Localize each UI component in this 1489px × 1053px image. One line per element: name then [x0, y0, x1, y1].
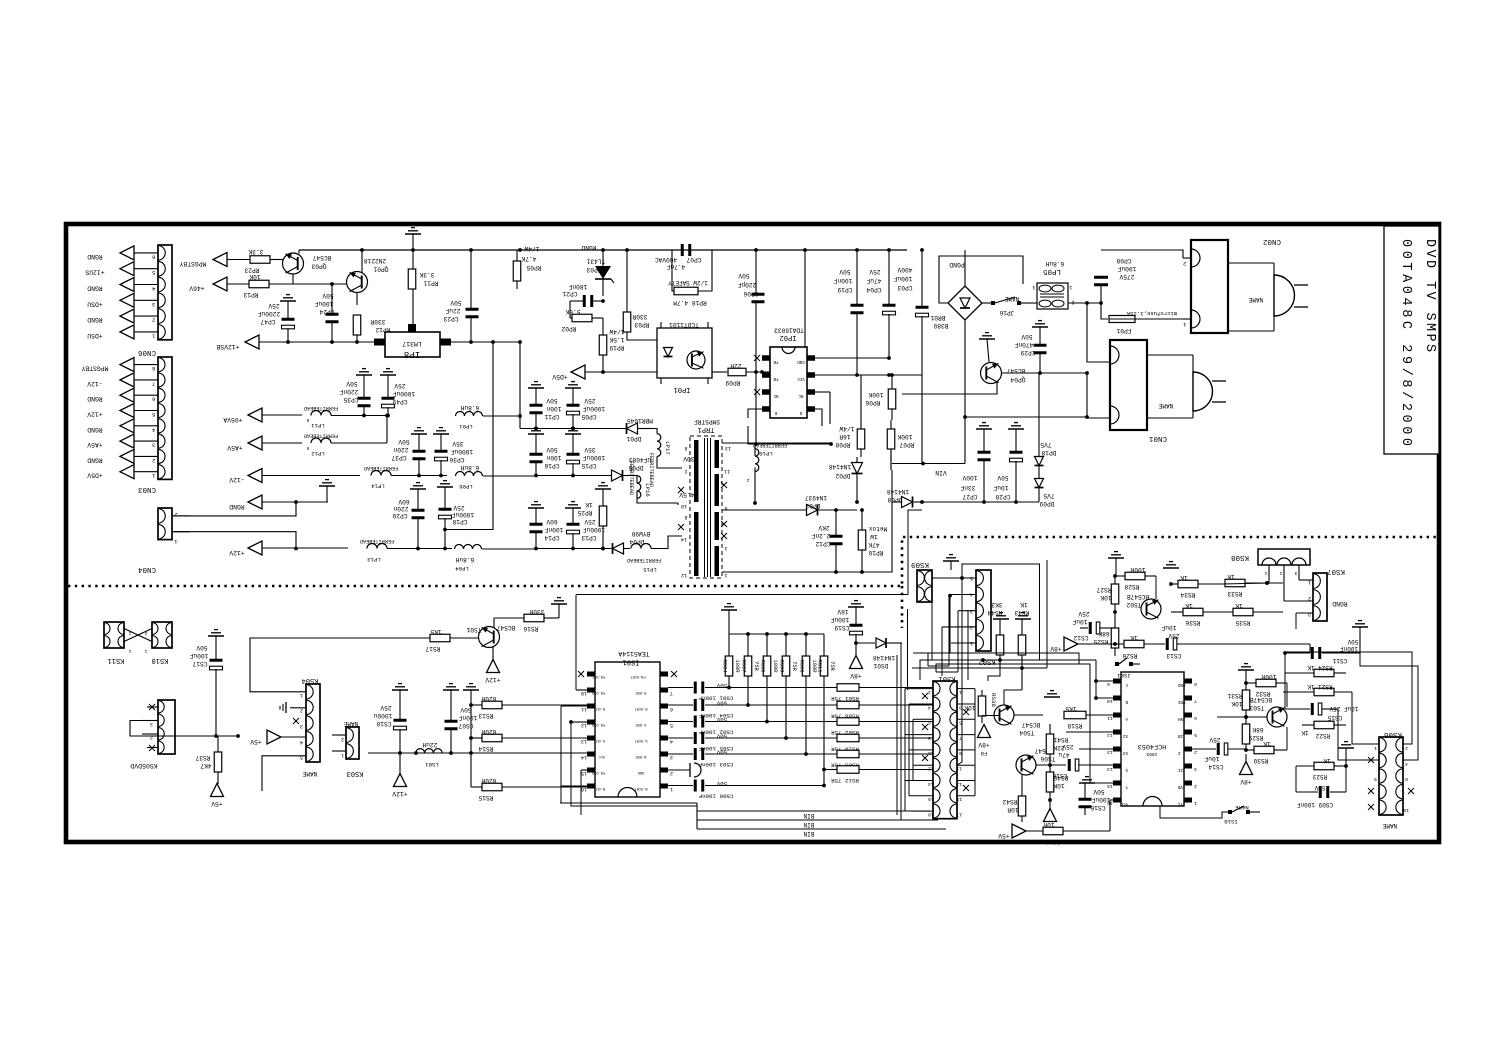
svg-text:RS29: RS29: [1248, 734, 1263, 741]
svg-text:180R: 180R: [734, 660, 740, 674]
svg-text:RS12 75R: RS12 75R: [831, 777, 859, 784]
svg-text:GND: GND: [797, 359, 805, 363]
isolation boundary dotted line: [68, 537, 1437, 586]
svg-text:25V: 25V: [268, 302, 279, 309]
svg-text:RS36: RS36: [1185, 619, 1200, 626]
svg-text:+DSU: +DSU: [87, 300, 103, 307]
svg-text:FERRITEBEAD: FERRITEBEAD: [304, 433, 338, 439]
svg-text:+8V: +8V: [850, 672, 862, 679]
svg-text:KS07: KS07: [1327, 567, 1345, 575]
wire KS05 to KS04 pin: [237, 736, 239, 737]
KS01 left wires: [905, 688, 933, 690]
net arrow +8V mid: [1050, 637, 1124, 652]
svg-text:100uF: 100uF: [314, 300, 333, 307]
ferrite bead LP16 vertical: [628, 461, 678, 503]
svg-text:1N4148: 1N4148: [887, 488, 910, 495]
svg-text:1N4937: 1N4937: [805, 494, 828, 501]
svg-text:RS07: RS07: [741, 660, 747, 673]
wire long IS01 bottom routing: [560, 802, 697, 804]
svg-text:+DSU: +DSU: [87, 332, 103, 339]
svg-text:12: 12: [928, 766, 934, 772]
svg-text:RS26: RS26: [1122, 652, 1137, 659]
svg-text:25V: 25V: [1168, 632, 1179, 639]
svg-text:CS12: CS12: [1073, 634, 1088, 641]
svg-text:RS44: RS44: [987, 609, 1002, 616]
svg-text:25V: 25V: [869, 268, 880, 275]
svg-text:13: 13: [956, 781, 962, 787]
wire RS44 bottom row: [983, 659, 1040, 661]
drawing border frame: [66, 224, 1439, 842]
svg-text:50V: 50V: [398, 438, 409, 445]
svg-text:CP49: CP49: [392, 398, 407, 405]
CN01 wiring: [1085, 301, 1110, 418]
svg-text:IS10: IS10: [1224, 818, 1238, 825]
svg-text:Metox: Metox: [868, 525, 887, 532]
svg-text:100K: 100K: [868, 391, 883, 398]
wire transformer pin6 to output rail: [722, 509, 806, 511]
diode DP01 MBR1045: [626, 417, 653, 442]
wire optocoupler to IP02: [712, 371, 727, 373]
mains plug for CN02: [1228, 263, 1308, 331]
svg-text:100uF: 100uF: [893, 275, 912, 282]
svg-text:TL431: TL431: [586, 258, 605, 265]
svg-text:50V: 50V: [716, 700, 727, 707]
svg-text:6: 6: [928, 720, 931, 726]
svg-text:6.8uH: 6.8uH: [460, 404, 479, 411]
svg-text:IP8: IP8: [404, 349, 420, 359]
svg-text:RS23: RS23: [1312, 773, 1327, 780]
svg-text:10K: 10K: [1100, 594, 1111, 601]
svg-text:RS11: RS11: [817, 660, 823, 673]
resistor RS23 1K: [1296, 757, 1348, 780]
svg-text:NAME: NAME: [1235, 804, 1249, 811]
capacitor CS19 100uF 16V: [830, 601, 864, 643]
svg-text:VCC: VCC: [797, 376, 805, 380]
connector CN06: [158, 245, 172, 340]
svg-text:RP11: RP11: [423, 280, 438, 287]
svg-text:10K: 10K: [249, 273, 260, 280]
svg-text:DP08: DP08: [887, 496, 902, 503]
resistor RS06 180R: [799, 634, 818, 756]
svg-text:2: 2: [1194, 749, 1197, 755]
svg-text:TRP1: TRP1: [698, 425, 715, 433]
capacitor CP20 220n 60V: [392, 483, 426, 551]
wire +5VA jog down to filter row: [519, 416, 521, 429]
svg-text:10uF 25V: 10uF 25V: [1329, 705, 1358, 712]
wire C506 row to RS12: [730, 785, 824, 787]
ferrite bead LP10 vertical: [746, 442, 787, 505]
capacitor CS07 100nF 50V: [443, 684, 477, 753]
transformer TRP1 SMPSTRF: [678, 418, 731, 578]
svg-text:10: 10: [681, 503, 687, 509]
resistor RP09 22R: [725, 362, 770, 386]
net arrow +46V: [189, 277, 249, 292]
wire bridge bottom rail corner to CN01: [965, 416, 1087, 418]
svg-text:VCC: VCC: [599, 754, 605, 758]
net arrow +05VA: [223, 408, 302, 423]
CN03 pin 7 wire and net arrow -12V: [87, 373, 158, 388]
svg-text:FERRITEBEAD: FERRITEBEAD: [304, 405, 338, 411]
svg-text:RP10: RP10: [868, 549, 883, 556]
capacitor CP23 22uF 50V: [443, 250, 478, 342]
svg-text:PGND: PGND: [949, 261, 965, 268]
svg-text:10: 10: [928, 750, 934, 756]
svg-text:RGND: RGND: [87, 456, 103, 463]
capacitor CP19 100nF 50V: [833, 250, 863, 375]
transformer secondary top wire pin13: [722, 442, 755, 444]
svg-text:8: 8: [684, 445, 687, 451]
ground above resistor bank: [721, 604, 737, 634]
svg-text:CP04: CP04: [866, 286, 881, 293]
svg-text:50V: 50V: [716, 733, 727, 740]
svg-text:8: 8: [152, 365, 155, 372]
CN06 pin 2 wire and net arrow RGND: [87, 309, 158, 324]
wire CS13 to CS11 junction: [1309, 644, 1311, 653]
wire DP08 net down to KS09 region: [908, 503, 922, 537]
svg-text:33nF: 33nF: [960, 484, 975, 491]
svg-text:50V: 50V: [1021, 333, 1032, 340]
resistor RS03 75R: [730, 750, 934, 768]
svg-text:X3: X3: [1122, 750, 1128, 754]
svg-text:CP37: CP37: [391, 454, 406, 461]
svg-text:LP01: LP01: [459, 423, 473, 430]
mains plug for CN01: [1147, 355, 1226, 418]
capacitor CP05 1000uF 25V: [565, 382, 605, 429]
svg-text:100uF: 100uF: [189, 652, 208, 659]
diode DP06 UF4083: [612, 456, 652, 481]
net arrow RGND secondary: [229, 495, 328, 510]
svg-text:50V: 50V: [716, 682, 727, 689]
svg-text:BC547B: BC547B: [1127, 593, 1150, 600]
wire +12VSB to IP8: [259, 341, 374, 343]
CN03 pin 1 wire and net arrow +D5V: [87, 465, 158, 480]
svg-text:RS38: RS38: [990, 693, 997, 707]
label CN06: [138, 348, 157, 356]
zener DP09 7V5: [1035, 479, 1055, 508]
capacitor C502 100nF 50V: [668, 716, 733, 736]
svg-text:1.5K: 1.5K: [609, 336, 624, 343]
svg-text:BC547: BC547: [312, 254, 331, 261]
svg-text:25V: 25V: [380, 704, 391, 711]
svg-text:RS37: RS37: [195, 754, 210, 761]
bridge rectifier BR01 B380: [930, 250, 982, 464]
svg-text:15: 15: [956, 796, 962, 802]
svg-text:12: 12: [681, 572, 687, 578]
svg-text:+05VA: +05VA: [223, 416, 242, 423]
CN04 wiring to rails: [172, 500, 298, 550]
CN06 pin 5 wire and net arrow +12US: [85, 262, 158, 277]
resistor RS07 75R: [741, 634, 760, 707]
connector KS06: [1368, 730, 1414, 829]
svg-text:F8: F8: [981, 750, 987, 756]
svg-text:1000uF: 1000uF: [451, 448, 474, 455]
svg-text:RS17: RS17: [425, 645, 440, 652]
resistor RP02 5.6K: [561, 301, 603, 332]
svg-text:LP11: LP11: [311, 422, 325, 429]
resistor RP23 3.3K: [244, 248, 283, 274]
svg-text:1: 1: [1374, 745, 1377, 751]
svg-text:LP10: LP10: [759, 450, 773, 457]
svg-text:1K: 1K: [1130, 634, 1138, 641]
svg-text:10: 10: [581, 690, 587, 696]
controller IP02 TDA16833: [754, 327, 815, 419]
resistor RS22 1K: [1301, 721, 1346, 739]
resistor RP03 330R: [623, 250, 657, 340]
svg-text:1K: 1K: [1323, 757, 1331, 764]
svg-text:+A5V: +A5V: [227, 444, 243, 451]
svg-text:6.8uH: 6.8uH: [460, 464, 479, 471]
svg-text:GND: GND: [638, 770, 644, 774]
capacitor CP12 2.2nF 2KV: [811, 510, 842, 574]
CN06 pin 4 wire and net arrow RGND: [87, 278, 158, 293]
svg-text:8: 8: [928, 735, 931, 741]
resistor RS29 68K: [1242, 724, 1263, 752]
svg-text:RGND: RGND: [1332, 600, 1348, 607]
svg-text:FB: FB: [773, 359, 779, 363]
resistor RS25 68K: [1093, 628, 1118, 656]
svg-text:1: 1: [724, 572, 727, 578]
svg-text:1K5: 1K5: [1065, 705, 1076, 712]
capacitor CP08 100uF 275V: [1094, 257, 1136, 286]
CN03 pin 8 wire and net arrow MPGSTBY: [81, 358, 158, 373]
svg-text:TEA5114A: TEA5114A: [618, 650, 649, 657]
svg-text:00TA048C 29/8/2000: 00TA048C 29/8/2000: [1398, 239, 1413, 450]
capacitor CS09 100nF 50V: [1296, 766, 1346, 808]
svg-text:3: 3: [150, 721, 153, 727]
wire right ladder vertical join: [1284, 673, 1286, 692]
svg-text:50V: 50V: [1314, 784, 1325, 791]
svg-text:TS01: TS01: [466, 626, 481, 633]
svg-text:RS41: RS41: [1053, 736, 1068, 743]
transistor TS02 BC547B: [1126, 593, 1161, 619]
wire long vertical right of KS02: [1046, 560, 1048, 668]
diode DS01 1N4148: [854, 638, 902, 669]
svg-text:CP20: CP20: [392, 512, 407, 519]
svg-text:1K: 1K: [1185, 602, 1193, 609]
svg-text:RS09: RS09: [779, 660, 785, 673]
capacitor CP18 1000uF 25V: [437, 481, 474, 551]
CN03 pin 4 wire and net arrow RGND: [87, 419, 158, 434]
svg-text:RS24 1K: RS24 1K: [1307, 664, 1333, 671]
svg-text:10uF: 10uF: [1072, 618, 1087, 625]
wire +5VA filter rail y=428: [520, 428, 626, 430]
capacitor CS18 47u 25V: [1052, 743, 1121, 779]
resistor RP25 1K: [577, 483, 611, 551]
svg-text:BYW98: BYW98: [631, 530, 650, 537]
svg-text:1: 1: [1194, 800, 1197, 806]
svg-text:RP08: RP08: [835, 441, 850, 448]
wire transformer pin1 bottom rail: [722, 470, 892, 572]
wire VIN rail: [892, 463, 965, 465]
svg-text:1: 1: [128, 648, 131, 654]
svg-text:400V: 400V: [897, 266, 912, 273]
connector KS02: [970, 570, 995, 665]
svg-text:400VAC: 400VAC: [655, 256, 678, 263]
svg-text:5: 5: [670, 722, 673, 728]
ground right of RS23: [1338, 742, 1354, 766]
ground right of CS07: [463, 684, 479, 787]
svg-text:14: 14: [928, 781, 934, 787]
svg-text:CS13: CS13: [1166, 652, 1181, 659]
svg-text:17: 17: [956, 811, 962, 817]
svg-text:6: 6: [1194, 715, 1197, 721]
svg-text:10uF: 10uF: [1161, 624, 1176, 631]
svg-text:50V: 50V: [716, 716, 727, 723]
svg-text:CP47: CP47: [260, 318, 275, 325]
svg-text:RS14: RS14: [478, 745, 493, 752]
svg-text:1W: 1W: [870, 533, 878, 540]
wire CP03 column down to secondary return: [921, 375, 923, 464]
wire DP03 output to DP08: [836, 509, 892, 511]
svg-text:JS01: JS01: [1117, 672, 1131, 679]
capacitor CP07 4.7nF 400VAC: [655, 244, 702, 270]
svg-text:5: 5: [1194, 732, 1197, 738]
svg-text:50V: 50V: [546, 446, 557, 453]
svg-text:2: 2: [1308, 595, 1311, 601]
svg-text:FERRITEBEAD: FERRITEBEAD: [627, 557, 661, 563]
svg-text:X2: X2: [1122, 733, 1128, 737]
net arrow +A5V: [227, 436, 302, 451]
wire IP8 output: [451, 341, 520, 343]
wire KS02 pin5 to long vertical: [962, 564, 1040, 660]
svg-text:3: 3: [1032, 284, 1035, 290]
transistor TS04 BC547: [994, 705, 1043, 736]
ferrite bead LP11: [304, 405, 387, 429]
inductor LS01 22uH: [416, 741, 442, 768]
svg-text:22uH: 22uH: [422, 741, 437, 748]
svg-text:1K: 1K: [1301, 729, 1309, 736]
svg-text:KS01: KS01: [939, 674, 956, 682]
svg-text:2: 2: [150, 734, 153, 740]
svg-text:2200uF: 2200uF: [258, 310, 281, 317]
svg-text:LP12: LP12: [311, 450, 324, 457]
svg-text:CN02: CN02: [1263, 237, 1281, 245]
svg-text:75R: 75R: [829, 661, 835, 671]
svg-text:KS03: KS03: [347, 769, 364, 777]
svg-text:RS43: RS43: [1014, 609, 1029, 616]
svg-text:7V5: 7V5: [1040, 441, 1051, 448]
svg-text:BR01: BR01: [930, 314, 945, 321]
svg-text:1K: 1K: [1180, 574, 1188, 581]
svg-text:CP07: CP07: [686, 256, 701, 263]
transistor TS03 BC547B: [1249, 696, 1287, 727]
svg-text:50V: 50V: [738, 272, 749, 279]
svg-text:2B: 2B: [1178, 733, 1184, 737]
svg-text:CP14: CP14: [544, 534, 559, 541]
svg-text:RS35: RS35: [1235, 619, 1250, 626]
ground right of TS02: [1163, 562, 1179, 568]
capacitor CS15 10uF 25V: [1285, 703, 1358, 721]
resistor RS27 10K: [1096, 574, 1118, 628]
svg-text:100n: 100n: [546, 405, 561, 412]
svg-text:16: 16: [928, 796, 934, 802]
wire TS03 base: [1217, 715, 1267, 719]
svg-text:RP23: RP23: [244, 267, 259, 274]
svg-text:+5V: +5V: [998, 832, 1010, 839]
svg-text:+12V: +12V: [392, 790, 408, 797]
svg-text:RP18 4.7M: RP18 4.7M: [673, 299, 707, 306]
svg-text:5: 5: [152, 269, 155, 276]
svg-text:CS09 100nF: CS09 100nF: [1297, 801, 1333, 808]
resistor RS05 180R: [760, 634, 779, 723]
svg-text:KS05DVD: KS05DVD: [130, 762, 157, 769]
resistor RS11 75R: [817, 634, 836, 787]
svg-text:100V: 100V: [962, 474, 977, 481]
svg-text:CN04: CN04: [138, 565, 157, 573]
svg-text:6: 6: [670, 706, 673, 712]
svg-text:25V: 25V: [394, 382, 405, 389]
svg-text:1: 1: [300, 692, 303, 698]
svg-text:MBR1045: MBR1045: [627, 417, 653, 424]
svg-text:180nF: 180nF: [568, 283, 587, 290]
svg-text:LM317: LM317: [402, 340, 422, 347]
svg-text:FB.SCRT: FB.SCRT: [630, 674, 646, 678]
svg-text:100nF: 100nF: [458, 714, 477, 721]
svg-text:220n: 220n: [393, 505, 408, 512]
wire KS02 long verticals to KS01: [957, 578, 962, 765]
svg-text:1993: 1993: [1146, 751, 1157, 757]
svg-text:DP02: DP02: [835, 472, 850, 479]
svg-text:1K: 1K: [1263, 740, 1271, 747]
svg-text:RS15: RS15: [478, 794, 493, 801]
svg-text:CP16: CP16: [544, 462, 559, 469]
svg-text:13: 13: [725, 445, 731, 451]
svg-text:CP11: CP11: [544, 413, 559, 420]
svg-text:TS06: TS06: [1040, 755, 1055, 762]
svg-text:25V: 25V: [1209, 736, 1220, 743]
svg-text:CP06: CP06: [743, 290, 758, 297]
capacitor C506 100nF 50V: [668, 780, 733, 800]
svg-text:100uF: 100uF: [1117, 265, 1136, 272]
svg-text:B.OSD: B.OSD: [636, 754, 647, 758]
svg-text:RS27: RS27: [1096, 586, 1111, 593]
svg-text:7: 7: [1194, 698, 1197, 704]
svg-text:6: 6: [152, 396, 155, 403]
svg-text:6.8uH: 6.8uH: [1045, 260, 1064, 267]
svg-text:7: 7: [670, 690, 673, 696]
resistor RS19 10R: [1043, 800, 1121, 845]
net arrow +8V under CS19: [850, 643, 863, 679]
inductor LP01 6.8uH: [456, 404, 521, 430]
svg-text:RS31: RS31: [1227, 692, 1242, 699]
svg-text:CP28: CP28: [995, 493, 1010, 500]
svg-text:22uF: 22uF: [445, 307, 460, 314]
svg-text:LS01: LS01: [425, 761, 439, 768]
svg-text:50V: 50V: [322, 292, 333, 299]
capacitor CP14 100nF 50V: [528, 502, 563, 549]
wire top bus y=250: [299, 249, 907, 251]
resistor RS32 100R: [1246, 673, 1287, 707]
resistor RS01 75R: [730, 684, 934, 702]
svg-text:JP16: JP16: [999, 309, 1014, 316]
wire +12V rail to diode: [534, 547, 538, 551]
resistor RS13 820R: [469, 695, 590, 719]
net arrow +12V under KS03: [392, 753, 408, 797]
svg-text:RP25: RP25: [577, 509, 592, 516]
wire pin13 rail to IP02 aux: [755, 443, 831, 444]
svg-text:RGND: RGND: [87, 285, 103, 292]
resistor RS40 10K: [1046, 765, 1068, 802]
resistor RS31 10K: [1227, 681, 1249, 724]
svg-text:50V: 50V: [839, 268, 850, 275]
svg-text:FERRITEBEAD: FERRITEBEAD: [628, 461, 634, 495]
connector KS03: [332, 720, 363, 777]
svg-text:4.7K: 4.7K: [521, 255, 536, 262]
resistor RS34 1K: [1169, 568, 1222, 598]
svg-text:RS05: RS05: [760, 660, 766, 673]
regulator IP8 LM317: [374, 324, 451, 359]
svg-text:Y1: Y1: [1178, 801, 1184, 805]
